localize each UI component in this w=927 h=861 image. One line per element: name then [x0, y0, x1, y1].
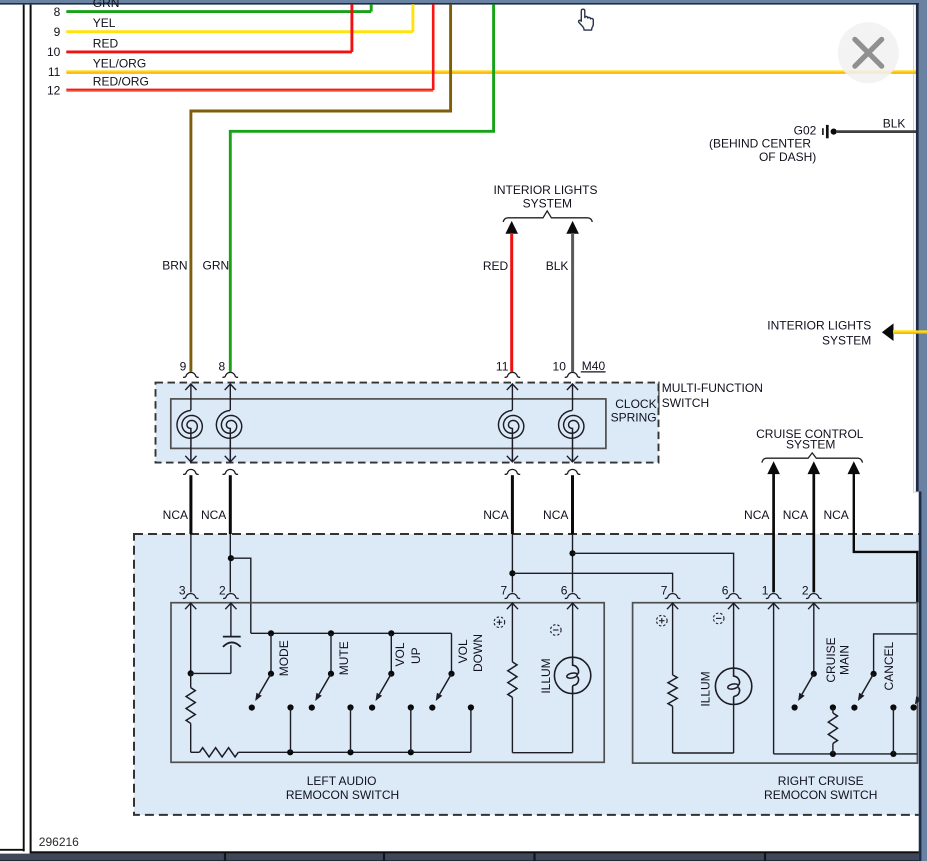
- svg-text:GRN: GRN: [93, 0, 120, 10]
- left box pins 3 2 7 6: [179, 583, 581, 609]
- switch MUTE: [309, 633, 354, 752]
- switch VOL UP: [369, 633, 414, 752]
- wire YEL to interior lights (arrow left): [882, 323, 927, 341]
- svg-text:M40: M40: [582, 359, 606, 373]
- capacitor C (pin2): [223, 603, 241, 673]
- label ILLUM right: [698, 671, 712, 706]
- switch partial (cut off): [911, 686, 926, 710]
- svg-text:MUTE: MUTE: [337, 641, 351, 675]
- switch common bus: [251, 630, 452, 636]
- clock spring coil 10: [559, 384, 584, 462]
- wire pin3: [188, 603, 231, 676]
- switch VOL DOWN: [429, 633, 454, 710]
- svg-text:2: 2: [802, 583, 809, 597]
- switch MODE: [249, 633, 294, 752]
- wire NCA stub 8-2: [223, 469, 239, 592]
- svg-text:11: 11: [496, 359, 509, 373]
- label CLOCK SPRING: [611, 397, 657, 424]
- svg-text:NCA: NCA: [823, 508, 848, 522]
- svg-text:RED: RED: [483, 259, 509, 273]
- close button: [838, 22, 899, 83]
- multi-function switch box (dashed): [156, 383, 659, 463]
- svg-text:10: 10: [553, 359, 567, 373]
- junction right box pin7 feed: [509, 570, 672, 592]
- svg-text:BLK: BLK: [546, 259, 569, 273]
- lamp ILLUM left: [554, 603, 590, 753]
- wire RED to interior lights (arrow up): [483, 221, 518, 372]
- wire 9 YEL: [54, 4, 413, 39]
- svg-text:CRUISE: CRUISE: [824, 637, 838, 682]
- labels NCA (cruise): [744, 508, 849, 522]
- svg-text:10: 10: [47, 45, 61, 59]
- svg-text:2: 2: [219, 583, 226, 597]
- svg-text:6: 6: [722, 583, 729, 597]
- svg-text:MULTI-FUNCTION: MULTI-FUNCTION: [662, 381, 763, 395]
- svg-text:NCA: NCA: [201, 508, 226, 522]
- svg-text:BRN: BRN: [162, 259, 187, 273]
- label MUTE: [337, 641, 351, 675]
- svg-text:8: 8: [219, 359, 226, 373]
- svg-text:REMOCON SWITCH: REMOCON SWITCH: [286, 788, 399, 802]
- right scrollbar strip: [916, 0, 927, 861]
- label MODE: [277, 640, 291, 676]
- label VOL UP: [393, 642, 423, 666]
- svg-text:CLOCK: CLOCK: [615, 397, 656, 411]
- svg-text:SYSTEM: SYSTEM: [786, 438, 835, 452]
- resistor cruise main: [828, 704, 837, 754]
- wire NCA cruise 3 (arrow up): [848, 461, 918, 602]
- svg-text:REMOCON SWITCH: REMOCON SWITCH: [764, 788, 877, 802]
- svg-text:RED/ORG: RED/ORG: [93, 75, 149, 89]
- svg-text:12: 12: [47, 83, 61, 97]
- svg-text:8: 8: [54, 5, 61, 19]
- lamp ILLUM right: [715, 603, 751, 753]
- svg-text:ILLUM: ILLUM: [698, 671, 712, 706]
- svg-text:NCA: NCA: [483, 508, 508, 522]
- svg-text:VOL: VOL: [393, 642, 407, 666]
- label ILLUM left: [539, 658, 553, 693]
- wire YEL overlay (right): [893, 332, 927, 334]
- svg-text:7: 7: [661, 583, 668, 597]
- right (+) symbol: [657, 615, 668, 626]
- wire NCA cruise 2 (arrow up): [808, 461, 821, 592]
- svg-text:296216: 296216: [39, 835, 79, 849]
- right cruise remocon switch box: [633, 603, 918, 763]
- label LEFT AUDIO REMOCON SWITCH: [286, 774, 399, 802]
- clock spring coil 9: [177, 384, 202, 462]
- sheet number 296216: [39, 835, 79, 849]
- clock spring inner box: [171, 399, 606, 449]
- cancel contact riser: [890, 704, 896, 754]
- svg-text:MAIN: MAIN: [837, 645, 851, 675]
- wire BLK to G02: [837, 117, 917, 132]
- wire NCA stub 11-7: [505, 469, 521, 592]
- brace interior lights: [503, 211, 592, 222]
- ground G02: [709, 123, 837, 164]
- brace cruise control: [762, 453, 863, 463]
- wire NCA stub 9-3: [183, 469, 199, 592]
- svg-text:ILLUM: ILLUM: [539, 658, 553, 693]
- connector M40 pin labels: [180, 359, 567, 373]
- svg-text:INTERIOR LIGHTS: INTERIOR LIGHTS: [493, 183, 597, 197]
- svg-text:INTERIOR LIGHTS: INTERIOR LIGHTS: [767, 319, 871, 333]
- svg-text:11: 11: [48, 65, 61, 79]
- label INTERIOR LIGHTS SYSTEM (top): [493, 183, 597, 210]
- vol-down contact riser: [468, 704, 474, 752]
- svg-text:9: 9: [180, 359, 187, 373]
- right (-) symbol: [713, 613, 724, 624]
- switch CANCEL: [851, 634, 917, 711]
- svg-text:BLK: BLK: [883, 117, 906, 131]
- wire pin1 right: [773, 603, 775, 754]
- label CRUISE CONTROL SYSTEM: [756, 427, 864, 452]
- wire NCA cruise 1 (arrow up): [767, 461, 780, 592]
- label VOL DOWN: [456, 634, 485, 672]
- junction right box pin6 feed: [569, 550, 733, 592]
- diagram sheet frame (double left border): [0, 5, 31, 852]
- resistor left-audio vertical: [186, 673, 195, 752]
- svg-text:NCA: NCA: [163, 508, 188, 522]
- resistor right illum: [668, 603, 677, 753]
- browser top bar: [0, 0, 927, 5]
- svg-text:RIGHT CRUISE: RIGHT CRUISE: [778, 774, 864, 788]
- svg-text:NCA: NCA: [783, 508, 808, 522]
- left (-) symbol: [551, 625, 562, 636]
- wire 11 YEL/ORG: [48, 56, 917, 79]
- remocon switches box (dashed): [134, 534, 921, 815]
- resistor left-audio horizontal: [191, 748, 239, 757]
- svg-text:G02: G02: [794, 123, 817, 137]
- svg-text:9: 9: [54, 25, 61, 39]
- svg-text:3: 3: [179, 583, 186, 597]
- wire NCA stub 10-6: [565, 469, 581, 592]
- junction pin2 feed: [228, 555, 251, 633]
- wire BRN (pin 9 drop): [162, 4, 450, 372]
- switch CRUISE MAIN: [792, 603, 817, 710]
- svg-text:YEL/ORG: YEL/ORG: [93, 56, 146, 70]
- svg-text:SYSTEM: SYSTEM: [822, 334, 871, 348]
- svg-text:RED: RED: [93, 36, 119, 50]
- svg-text:CANCEL: CANCEL: [882, 641, 896, 690]
- page right border: [913, 5, 918, 492]
- mouse cursor: [579, 9, 594, 30]
- label MULTI-FUNCTION SWITCH: [659, 381, 763, 410]
- wire 10 RED: [47, 4, 352, 59]
- clock spring coil 8: [216, 384, 241, 462]
- svg-text:SWITCH: SWITCH: [662, 396, 709, 410]
- labels NCA (clock spring): [163, 508, 569, 522]
- svg-text:SYSTEM: SYSTEM: [523, 197, 572, 211]
- svg-text:OF DASH): OF DASH): [759, 150, 816, 164]
- label CRUISE MAIN: [824, 637, 851, 682]
- label CANCEL: [882, 641, 896, 690]
- clock spring coil 11: [498, 384, 523, 462]
- left illum bottom link: [512, 752, 572, 754]
- label INTERIOR LIGHTS SYSTEM (right): [767, 319, 871, 348]
- resistor left illum: [508, 603, 517, 753]
- svg-text:GRN: GRN: [203, 259, 230, 273]
- wire 12 RED/ORG: [47, 4, 433, 97]
- connector M40 label: [581, 359, 606, 373]
- connector M40 sockets: [183, 372, 580, 377]
- svg-text:MODE: MODE: [277, 640, 291, 676]
- svg-text:VOL: VOL: [456, 639, 470, 663]
- left audio remocon switch box: [171, 603, 604, 763]
- svg-text:1: 1: [762, 583, 769, 597]
- svg-text:DOWN: DOWN: [471, 634, 485, 672]
- svg-text:7: 7: [501, 583, 508, 597]
- svg-text:SPRING: SPRING: [611, 411, 657, 425]
- svg-text:6: 6: [561, 583, 568, 597]
- wire BLK to interior lights (arrow up): [546, 221, 579, 372]
- svg-text:NCA: NCA: [744, 508, 769, 522]
- wire 8 GRN: [54, 0, 372, 19]
- right bottom bus: [774, 751, 918, 757]
- svg-text:NCA: NCA: [543, 508, 568, 522]
- right box pins 7 6 1 2: [661, 583, 822, 609]
- bottom bus: [238, 749, 471, 755]
- svg-text:(BEHIND CENTER: (BEHIND CENTER: [709, 137, 811, 151]
- svg-text:UP: UP: [409, 647, 423, 664]
- bottom table header band: [0, 851, 919, 861]
- svg-text:LEFT AUDIO: LEFT AUDIO: [307, 774, 377, 788]
- wire GRN (pin 8 drop): [203, 4, 494, 372]
- right illum bottom link: [673, 752, 734, 754]
- label RIGHT CRUISE REMOCON SWITCH: [764, 774, 877, 802]
- svg-text:YEL: YEL: [93, 16, 116, 30]
- left (+) symbol: [494, 617, 505, 628]
